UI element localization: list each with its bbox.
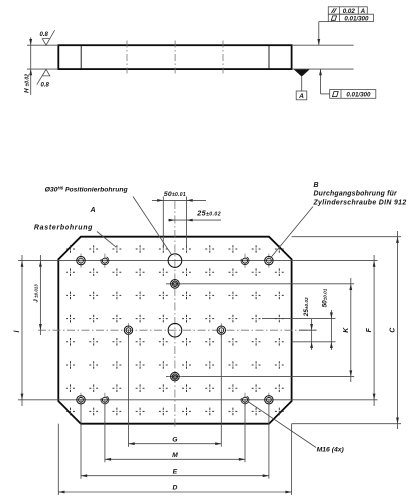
dim D line <box>58 491 291 493</box>
dim K arrows <box>349 284 352 290</box>
svg-text:F: F <box>366 327 373 332</box>
through hole B bottom-left <box>80 393 82 407</box>
bottom surface extension line <box>292 68 354 70</box>
datum A triangle <box>294 70 310 77</box>
svg-text:50±0.01: 50±0.01 <box>321 288 328 307</box>
svg-text:Ø30H6 Positionierbohrung: Ø30H6 Positionierbohrung <box>45 185 129 193</box>
through hole B top-right <box>268 254 270 268</box>
svg-text:J ±0.013: J ±0.013 <box>34 284 40 303</box>
dim 25 top arrows <box>169 219 175 222</box>
grid hole crosses row 5 <box>66 338 284 346</box>
hole K top <box>168 283 182 285</box>
ext line row below center <box>292 341 336 343</box>
fcf flatness frame top <box>328 14 373 21</box>
svg-text:D: D <box>172 485 177 492</box>
dim K line <box>350 278 352 382</box>
plate outline (plan view) <box>58 237 291 424</box>
svg-text:0.8: 0.8 <box>40 32 49 38</box>
leader M16 <box>249 402 316 448</box>
top surface extension line <box>292 44 354 46</box>
grid hole crosses row 8 <box>66 408 284 416</box>
leader D30 <box>133 197 171 255</box>
hole G right <box>220 323 222 337</box>
dim C arrows <box>396 237 399 243</box>
H dim line <box>30 38 32 96</box>
svg-text:l: l <box>14 329 21 332</box>
svg-text:25±0.02: 25±0.02 <box>196 208 221 217</box>
surface finish bottom 0.8 <box>37 69 50 84</box>
dim 25±0.02 right line <box>311 319 313 350</box>
svg-text:M16 (4x): M16 (4x) <box>317 447 345 454</box>
dim l arrows <box>21 261 24 267</box>
svg-text:Rasterbohrung: Rasterbohrung <box>34 224 93 231</box>
ext line D right <box>291 424 293 495</box>
side view centerline x=127 <box>126 41 128 74</box>
dim E line <box>81 475 269 477</box>
K extension bottom <box>166 376 354 378</box>
grid hole crosses row 3 <box>66 292 284 300</box>
dim 50 top arrows <box>157 199 163 202</box>
svg-text:Zylinderschraube DIN 912: Zylinderschraube DIN 912 <box>313 199 407 206</box>
fcf leader bottom arrow <box>319 69 322 75</box>
svg-text:B: B <box>314 182 319 189</box>
ext line plate bottom right <box>292 423 401 425</box>
H dim extension bottom <box>27 68 58 70</box>
side view centerline x=175 <box>174 41 176 74</box>
leader Rasterbohrung <box>97 232 116 248</box>
side view chamfer edge right <box>268 45 270 69</box>
fcf parallelism frame <box>328 7 367 14</box>
fcf flatness frame bottom <box>330 90 376 99</box>
H dim extension top <box>27 44 58 46</box>
dim F line <box>373 255 375 406</box>
dim l line <box>21 255 23 406</box>
side view plate outline <box>58 45 291 69</box>
grid hole crosses row 2 <box>66 268 284 276</box>
ext line plate top right <box>292 236 401 238</box>
svg-text:A: A <box>90 207 96 214</box>
through hole B bottom-right <box>268 393 270 407</box>
top hole row line <box>18 260 378 262</box>
positioning hole D30 top <box>168 254 182 268</box>
svg-text:0.8: 0.8 <box>41 83 50 89</box>
grid hole crosses row 4 <box>66 315 284 323</box>
fcf leader top <box>318 22 320 46</box>
M16 hole bottom-right <box>244 393 246 407</box>
datum A box <box>296 91 307 100</box>
svg-text:25±0.02: 25±0.02 <box>303 297 310 317</box>
ext line row above center <box>262 318 336 320</box>
svg-text:G: G <box>172 436 178 443</box>
ext line E right <box>268 400 270 479</box>
bottom hole row line <box>18 399 378 401</box>
M16 hole bottom-left <box>104 393 106 407</box>
svg-text:K: K <box>343 327 350 333</box>
dim D arrows <box>58 491 64 494</box>
leader B <box>271 207 313 258</box>
dim 50 right arrows <box>330 312 333 318</box>
H dim arrow bottom <box>29 69 32 75</box>
M16 hole top-left <box>104 254 106 268</box>
ext line M left <box>104 400 106 463</box>
fcf leader top arrow <box>317 39 320 45</box>
svg-text:H ±0.02: H ±0.02 <box>24 74 31 93</box>
side view chamfer edge left <box>80 45 82 69</box>
hole G left <box>128 323 130 337</box>
ext line col left of center <box>162 197 164 249</box>
dim 25 right arrows <box>310 324 313 330</box>
dim C line <box>397 231 399 429</box>
dim 50±0.01 top line <box>152 199 206 201</box>
grid hole crosses row 6 <box>66 361 284 369</box>
fcf leader bottom <box>320 69 322 94</box>
ext line D left <box>57 424 59 495</box>
grid hole crosses row 7 <box>66 384 284 392</box>
ext line G right <box>220 330 222 447</box>
ext line G left <box>128 330 130 447</box>
dim E arrows <box>81 474 87 477</box>
svg-text:A: A <box>298 93 304 100</box>
dim 50±0.01 right line <box>330 310 332 350</box>
positioning hole D30 center <box>168 323 182 337</box>
surface finish top 0.8 <box>42 30 54 45</box>
svg-text:0.01/300: 0.01/300 <box>346 92 371 99</box>
grid hole crosses row 1 <box>66 245 284 253</box>
ext line col right of center <box>186 197 188 249</box>
ext line E left <box>80 400 82 479</box>
through hole B top-left <box>80 254 82 268</box>
hole K bottom <box>168 376 182 378</box>
ext line M right <box>244 400 246 463</box>
dim M line <box>105 458 245 460</box>
svg-text:M: M <box>172 452 178 459</box>
H dim arrow top <box>29 39 32 45</box>
svg-text:C: C <box>390 327 397 333</box>
dim J line <box>39 255 41 335</box>
dim 25±0.02 top line <box>168 219 221 221</box>
dim M arrows <box>105 458 111 461</box>
horizontal centerline <box>38 329 317 331</box>
svg-text:Durchgangsbohrung für: Durchgangsbohrung für <box>314 191 398 198</box>
vertical centerline <box>174 201 176 429</box>
dim G line <box>129 443 222 445</box>
dim F arrows <box>373 261 376 267</box>
svg-text:0.01/300: 0.01/300 <box>344 15 369 22</box>
M16 hole top-right <box>244 254 246 268</box>
dim J arrows <box>39 261 42 267</box>
K extension top <box>166 283 354 285</box>
dim G arrows <box>129 442 135 445</box>
svg-text:E: E <box>173 468 178 475</box>
svg-text:50±0.01: 50±0.01 <box>164 191 186 198</box>
side view centerline x=223 <box>222 41 224 74</box>
